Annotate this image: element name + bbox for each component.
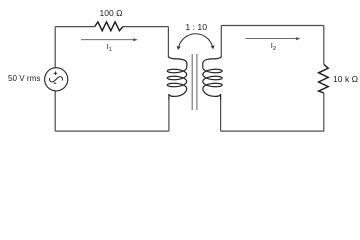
ratio arc arrow [177,34,215,50]
transformer T1 right coil [203,57,222,100]
wire primary bottom [55,130,169,132]
wire primary top [55,26,168,28]
arrow I2 [245,37,300,40]
svg-text:50 V rms: 50 V rms [8,74,40,83]
resistor R1 100 ohm [95,22,123,31]
wire secondary bottom [221,130,324,132]
wire secondary right [323,26,325,132]
svg-text:I2: I2 [271,41,276,52]
svg-text:I1: I1 [106,42,111,53]
source V1 50 V rms [45,68,68,91]
wire secondary top [221,25,323,27]
svg-text:1 : 10: 1 : 10 [185,22,207,32]
transformer T1 left coil [167,57,187,100]
svg-text:10 k Ω: 10 k Ω [333,74,359,84]
wire secondary left [220,26,223,132]
transformer core [192,54,197,110]
resistor R2 10 k ohm [319,64,329,93]
svg-text:100 Ω: 100 Ω [100,8,123,18]
wire primary left [54,27,56,132]
arrow I1 [81,38,138,41]
wire primary right to coil [167,27,170,132]
